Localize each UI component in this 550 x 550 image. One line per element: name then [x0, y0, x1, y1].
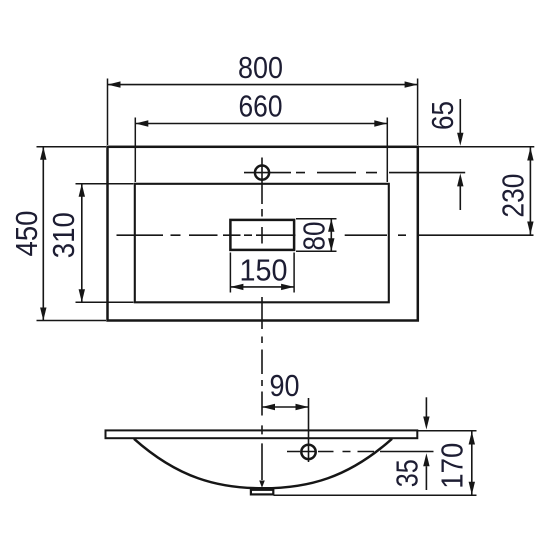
- drain fitting: [251, 490, 273, 495]
- dim 310 line: [81, 184, 83, 302]
- dim 65 lower arrow: [459, 186, 461, 210]
- dim 170 line: [471, 432, 473, 495]
- dim 150 line: [230, 286, 294, 288]
- dim 35 lower arrow: [425, 466, 427, 490]
- svg-text:310: 310: [46, 212, 81, 258]
- dim 65 label: [425, 101, 460, 130]
- dim 90 line: [262, 406, 309, 408]
- side centerline horizontal (dash-dot): [287, 451, 434, 453]
- bowl bottom extension right: [274, 494, 477, 496]
- dim 450 label: [9, 211, 44, 257]
- overflow slot rectangle: [230, 220, 294, 250]
- dim 230 label: [496, 174, 531, 218]
- svg-text:65: 65: [425, 101, 460, 130]
- dim 35 upper arrow: [425, 397, 427, 416]
- svg-text:150: 150: [240, 253, 288, 288]
- faucet hole circle: [255, 166, 269, 180]
- slab top extension right: [418, 430, 477, 432]
- svg-text:660: 660: [239, 89, 283, 124]
- side view slab: [106, 430, 418, 438]
- dim 310 label: [46, 212, 81, 258]
- dim 230 line: [529, 148, 531, 235]
- dim 450 line: [42, 147, 44, 321]
- faucet hole crosshair vertical: [261, 158, 263, 205]
- svg-text:80: 80: [297, 222, 332, 251]
- horizontal centerline (dash-dot): [117, 234, 534, 236]
- dim 80 label: [297, 222, 332, 251]
- dim 65 upper arrow: [459, 99, 461, 134]
- centerline arrow at drain: [259, 481, 265, 488]
- dim 35 label: [390, 459, 425, 487]
- basin outer rim (top view): [108, 147, 418, 321]
- dim 660 line: [135, 123, 387, 125]
- basin inner bowl edge (top view): [135, 184, 389, 302]
- dim 450 extension lines: [37, 147, 107, 321]
- dim 150 extension lines: [230, 253, 294, 293]
- dim 660 extension lines: [135, 118, 387, 183]
- basin bowl profile: [134, 439, 392, 489]
- dim 80 line: [330, 219, 332, 252]
- svg-text:450: 450: [9, 211, 44, 257]
- svg-text:800: 800: [238, 50, 283, 85]
- dim 80 extension lines: [296, 219, 337, 252]
- svg-text:35: 35: [390, 459, 425, 487]
- top edge extension right: [418, 146, 534, 148]
- dim 310 extension lines: [76, 184, 134, 302]
- dim 170 label: [435, 443, 470, 489]
- overflow hole vertical extension: [308, 398, 310, 462]
- faucet hole crosshair horizontal: [244, 172, 291, 174]
- overflow hole circle (side): [301, 445, 315, 459]
- svg-text:90: 90: [270, 368, 300, 403]
- dim 800 line: [108, 84, 418, 86]
- dim 800 extension lines: [108, 79, 418, 146]
- svg-text:170: 170: [435, 443, 470, 489]
- hole centerline extension right: [296, 172, 465, 174]
- vertical centerline (dash-dot): [261, 209, 263, 480]
- svg-text:230: 230: [496, 174, 531, 218]
